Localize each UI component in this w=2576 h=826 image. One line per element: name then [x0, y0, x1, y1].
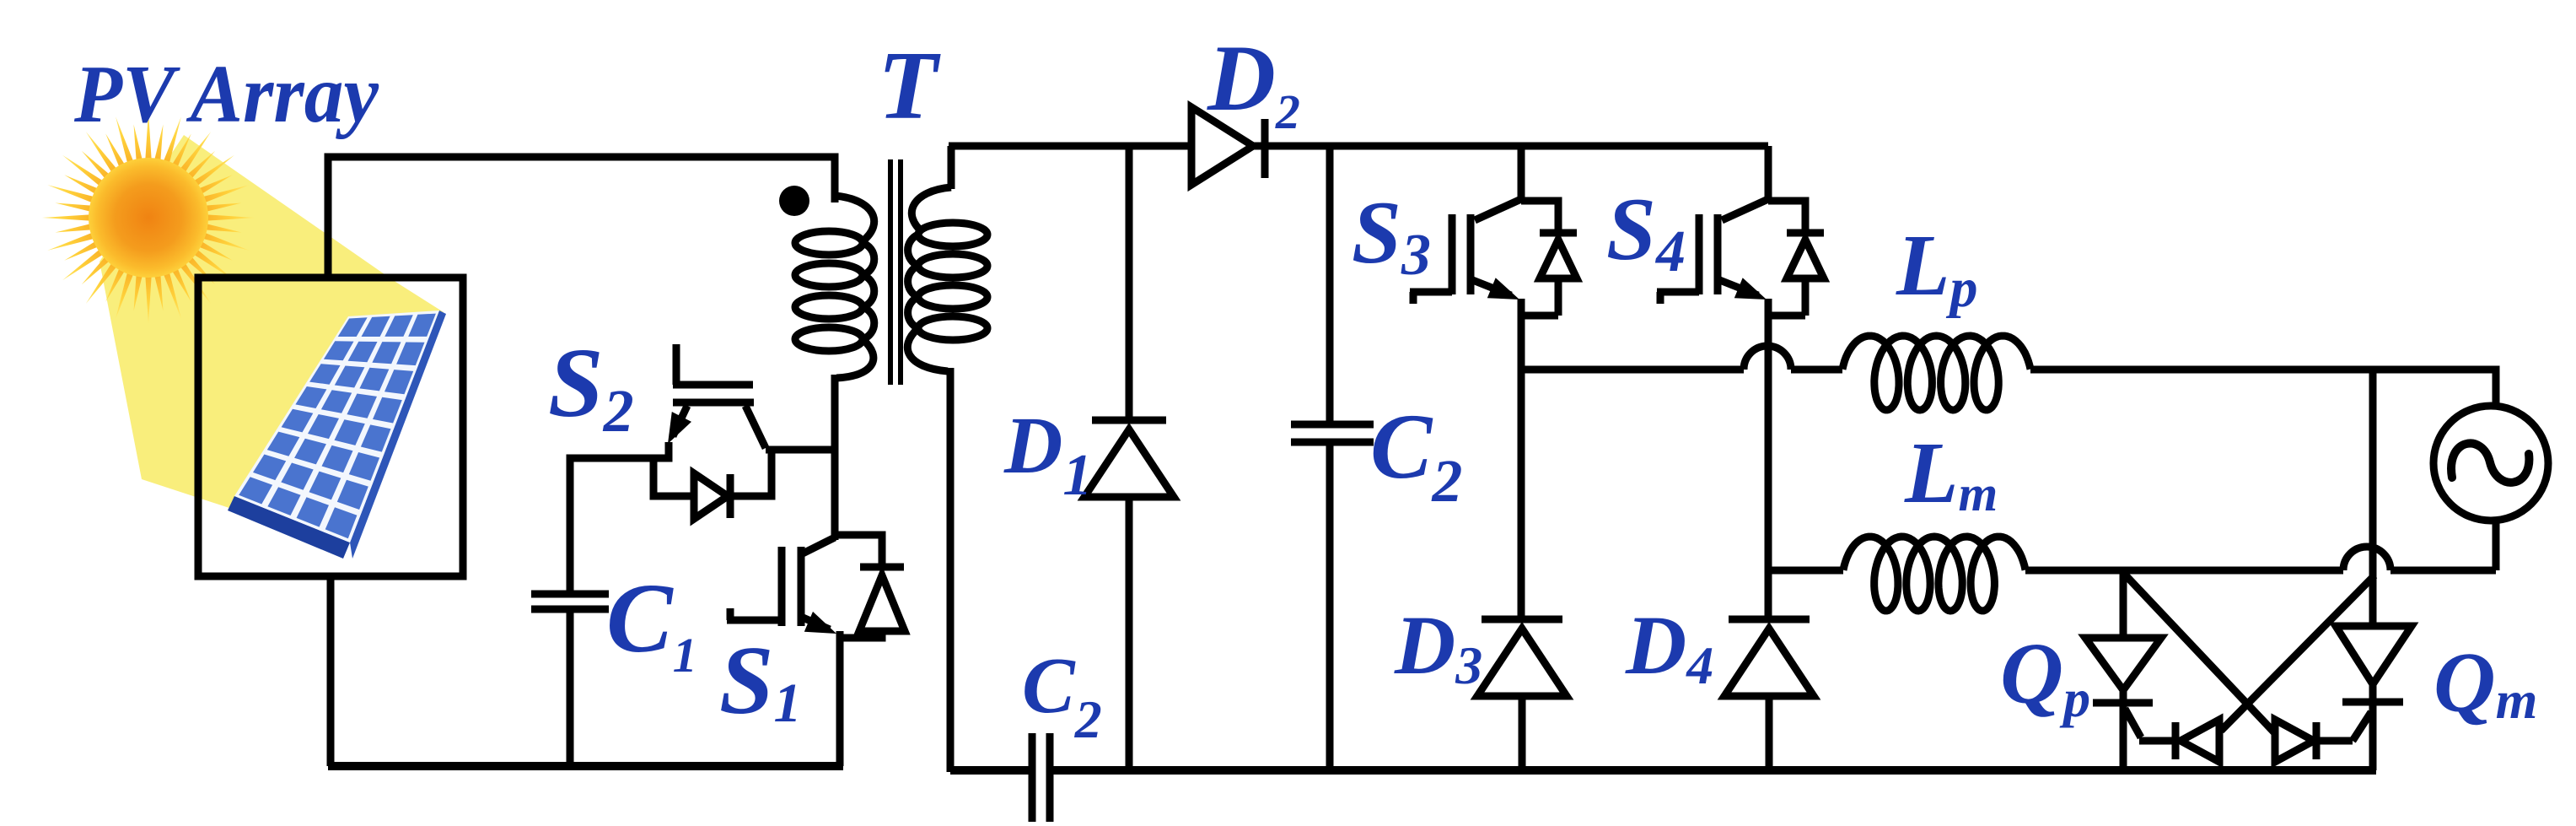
svg-text:T: T: [878, 32, 941, 140]
svg-text:PV Array: PV Array: [73, 49, 379, 140]
